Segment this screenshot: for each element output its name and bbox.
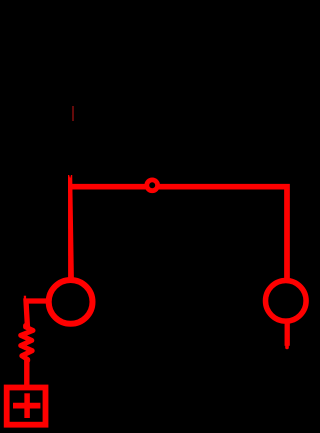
wire: top horizontal bus with right corner drop [68, 187, 287, 278]
node A notch at top of riser [69, 175, 71, 179]
resistor R1: zigzag [21, 326, 33, 361]
wire: open terminal below lamp L2 [285, 323, 290, 346]
wire: stub from lamp L1 left side down to resistor R1 [26, 301, 48, 328]
lamp L2: right circle [266, 281, 307, 322]
wire: corner overshoot tip [24, 296, 26, 301]
node: open junction ring on bus [147, 180, 158, 191]
battery B1: plus symbol [13, 403, 40, 409]
battery B1: box [7, 388, 46, 425]
lamp L1: left circle [49, 280, 93, 324]
wire: resistor R1 to battery B1 [24, 359, 29, 389]
wire: faint stub above node A [72, 106, 74, 121]
wire: left vertical riser from top bus to lamp L1 [68, 175, 74, 278]
